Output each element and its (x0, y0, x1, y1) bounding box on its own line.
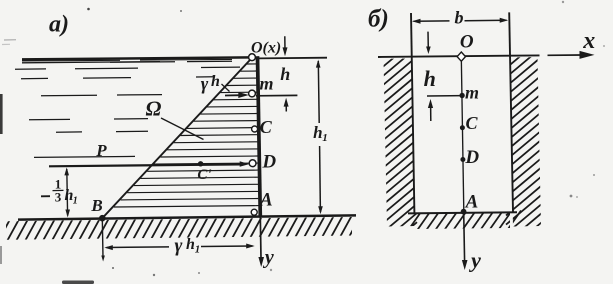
svg-text:Ω: Ω (146, 97, 162, 121)
svg-text:h: h (211, 73, 220, 90)
svg-text:O(x): O(x) (251, 40, 281, 57)
svg-text:a): a) (49, 12, 69, 38)
svg-text:1: 1 (322, 132, 328, 144)
svg-text:x: x (582, 28, 595, 54)
svg-text:O: O (460, 32, 474, 53)
svg-text:b: b (455, 8, 464, 28)
svg-text:б): б) (368, 6, 389, 33)
svg-text:γ: γ (175, 236, 183, 257)
svg-text:B: B (90, 196, 102, 215)
svg-text:A: A (259, 190, 273, 211)
svg-text:h: h (280, 64, 290, 84)
svg-text:C: C (260, 117, 273, 137)
svg-text:m: m (465, 83, 479, 103)
svg-text:D: D (464, 147, 479, 168)
svg-text:D: D (261, 152, 276, 173)
svg-text:γ: γ (201, 74, 209, 94)
svg-text:A: A (465, 192, 479, 213)
svg-text:h: h (424, 66, 436, 91)
svg-text:h: h (186, 236, 195, 253)
svg-text:h: h (313, 123, 322, 142)
svg-text:1: 1 (195, 244, 201, 256)
svg-text:C: C (465, 113, 478, 133)
svg-text:P: P (95, 141, 107, 160)
svg-text:1: 1 (73, 195, 78, 206)
svg-text:m: m (259, 74, 273, 94)
svg-text:3: 3 (55, 189, 62, 204)
svg-text:y: y (263, 247, 274, 269)
svg-text:C': C' (197, 167, 211, 183)
